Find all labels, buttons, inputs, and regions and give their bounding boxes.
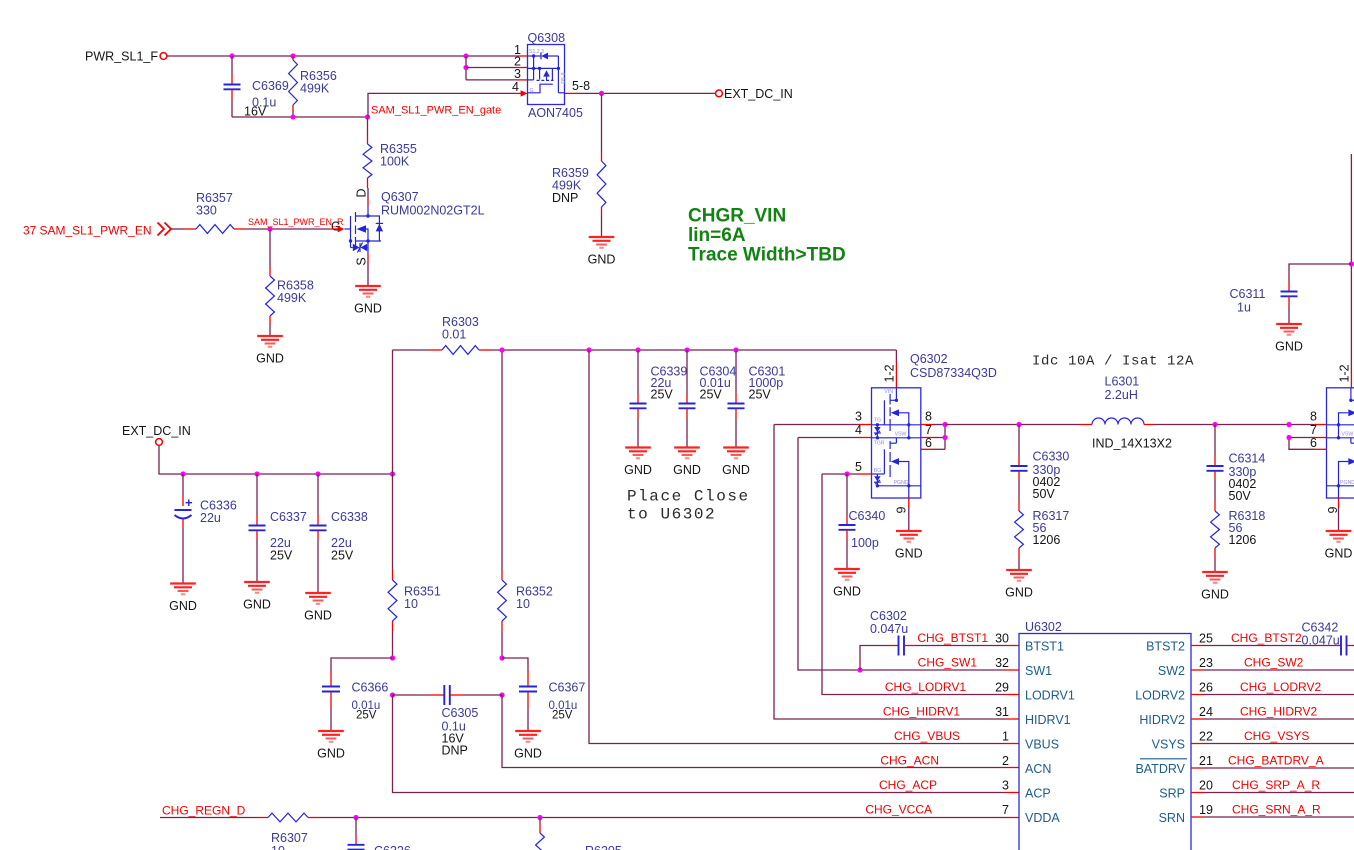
svg-text:HIDRV2: HIDRV2: [1139, 713, 1185, 727]
svg-text:EXT_DC_IN: EXT_DC_IN: [724, 87, 793, 101]
junction: [684, 347, 689, 352]
svg-text:VSW: VSW: [895, 431, 907, 437]
svg-text:499K: 499K: [277, 291, 307, 305]
resistor R6303: [393, 349, 431, 351]
wire HIDRV2: [1191, 718, 1203, 720]
svg-text:TG: TG: [874, 418, 881, 424]
svg-text:100p: 100p: [851, 536, 879, 550]
capacitor C6336: [182, 474, 184, 496]
svg-text:CHG_ACN: CHG_ACN: [880, 754, 939, 768]
svg-text:PGND: PGND: [1340, 480, 1354, 486]
svg-text:31: 31: [995, 705, 1009, 719]
wire pin3: [466, 79, 517, 81]
ground: [895, 531, 923, 561]
svg-text:L6301: L6301: [1105, 375, 1140, 389]
svg-text:0.047u: 0.047u: [1302, 634, 1340, 648]
wire drain: [367, 188, 369, 200]
wire EXT_DC_IN bus: [159, 446, 393, 475]
junction: [599, 91, 604, 96]
svg-text:VSYS: VSYS: [1152, 738, 1185, 752]
capacitor C6338: [317, 474, 319, 515]
svg-text:GND: GND: [722, 463, 750, 477]
junction: [463, 53, 468, 58]
svg-text:VIN: VIN: [884, 389, 893, 395]
svg-text:CHG_BTST1: CHG_BTST1: [917, 631, 988, 645]
svg-text:2.2uH: 2.2uH: [1105, 388, 1138, 402]
wire pin6 link: [1289, 438, 1314, 450]
svg-text:50V: 50V: [1033, 487, 1056, 501]
capacitor C6340: [846, 474, 848, 515]
svg-text:GND: GND: [1325, 547, 1353, 561]
svg-text:5-8: 5-8: [572, 79, 590, 93]
svg-text:VSW: VSW: [1342, 431, 1354, 437]
wire VBUS: [589, 350, 1006, 744]
junction: [315, 471, 320, 476]
junction: [365, 114, 370, 119]
svg-text:SW1: SW1: [1025, 664, 1052, 678]
svg-text:PGND: PGND: [894, 480, 909, 486]
svg-text:7: 7: [1310, 423, 1317, 437]
wire PWR_SL1_F bus: [167, 55, 517, 57]
junction: [180, 471, 185, 476]
svg-text:EXT_DC_IN: EXT_DC_IN: [122, 424, 191, 438]
svg-text:CHG_VBUS: CHG_VBUS: [894, 729, 960, 743]
svg-text:C6305: C6305: [442, 706, 479, 720]
svg-text:GND: GND: [1005, 586, 1033, 600]
svg-text:C6330: C6330: [1033, 450, 1070, 464]
junction: [254, 471, 259, 476]
junction: [499, 655, 504, 660]
resistor R6318: [1214, 501, 1216, 511]
svg-text:R6305: R6305: [585, 844, 622, 850]
svg-text:CHGR_VIN: CHGR_VIN: [688, 206, 786, 227]
svg-text:1206: 1206: [1033, 533, 1061, 547]
resistor R6357: [171, 228, 184, 230]
capacitor C6369: [231, 56, 233, 74]
svg-text:CHG_SW2: CHG_SW2: [1244, 656, 1304, 670]
svg-text:Q6308: Q6308: [528, 31, 566, 45]
svg-text:26: 26: [1199, 681, 1213, 695]
svg-text:25V: 25V: [270, 549, 293, 563]
svg-text:GND: GND: [317, 747, 345, 761]
svg-text:CHG_SW1: CHG_SW1: [918, 656, 978, 670]
wire VSYS: [1191, 743, 1203, 745]
svg-text:SAM_SL1_PWR_EN_R: SAM_SL1_PWR_EN_R: [248, 217, 344, 227]
junction: [390, 692, 395, 697]
wire TG: [774, 424, 858, 426]
svg-text:CHG_HIDRV2: CHG_HIDRV2: [1240, 705, 1317, 719]
wire SRP: [1191, 792, 1203, 794]
wire VIN to Q6302: [895, 350, 897, 362]
svg-text:8: 8: [1310, 410, 1317, 424]
svg-text:10: 10: [404, 597, 418, 611]
transistor Q6307: [344, 228, 350, 230]
resistor R6317: [1018, 501, 1020, 511]
ground: [722, 448, 750, 478]
wire src vertical: [465, 56, 467, 80]
junction: [537, 815, 542, 820]
svg-text:VDDA: VDDA: [1025, 811, 1060, 825]
svg-text:1-2: 1-2: [882, 364, 896, 382]
wire SW2: [1191, 669, 1203, 671]
svg-text:CSD87334Q3D: CSD87334Q3D: [910, 366, 997, 380]
terminal PWR_SL1_F: [160, 53, 167, 60]
junction: [844, 471, 849, 476]
svg-text:30: 30: [995, 632, 1009, 646]
svg-text:20: 20: [1199, 779, 1213, 793]
svg-text:Idc 10A / Isat 12A: Idc 10A / Isat 12A: [1032, 354, 1194, 370]
svg-text:330: 330: [196, 204, 217, 218]
svg-text:PWR_SL1_F: PWR_SL1_F: [85, 50, 158, 64]
svg-text:lin=6A: lin=6A: [688, 225, 746, 246]
svg-text:BG: BG: [874, 468, 882, 474]
svg-text:21: 21: [1199, 754, 1213, 768]
wire HIDRV1 net: [774, 425, 1006, 720]
svg-text:C6302: C6302: [870, 609, 907, 623]
junction: [857, 667, 862, 672]
capacitor C6366: [331, 658, 393, 671]
svg-text:100K: 100K: [380, 155, 410, 169]
svg-text:CHG_ACP: CHG_ACP: [879, 778, 937, 792]
svg-text:ACN: ACN: [1025, 762, 1051, 776]
svg-text:S1,2,3: S1,2,3: [529, 49, 544, 55]
svg-text:C6340: C6340: [849, 509, 886, 523]
svg-text:CHG_LODRV2: CHG_LODRV2: [1240, 680, 1321, 694]
capacitor C6367: [502, 658, 528, 671]
resistor R6359: [601, 93, 603, 152]
svg-text:DNP: DNP: [552, 191, 578, 205]
svg-text:32: 32: [995, 656, 1009, 670]
svg-text:CHG_BATDRV_A: CHG_BATDRV_A: [1228, 754, 1324, 768]
wire VIN right: [1350, 154, 1352, 374]
svg-text:AON7405: AON7405: [528, 106, 583, 120]
svg-text:GND: GND: [169, 599, 197, 613]
capacitor C6326: [355, 818, 357, 836]
svg-text:SRP: SRP: [1159, 787, 1185, 801]
wire pin4 gate: [368, 93, 516, 117]
svg-text:GND: GND: [624, 463, 652, 477]
svg-text:CHG_SRN_A_R: CHG_SRN_A_R: [1232, 803, 1321, 817]
svg-text:GND: GND: [833, 585, 861, 599]
svg-text:BATDRV: BATDRV: [1135, 762, 1185, 776]
svg-text:10: 10: [271, 844, 285, 850]
svg-text:29: 29: [995, 681, 1009, 695]
junction: [463, 65, 468, 70]
svg-text:50V: 50V: [1229, 489, 1252, 503]
svg-text:499K: 499K: [300, 82, 330, 96]
svg-text:Place Close: Place Close: [627, 488, 750, 506]
resistor R6351: [392, 474, 394, 570]
ground: [673, 448, 701, 478]
resistor R6305: [539, 818, 541, 824]
IC U6302: [1019, 634, 1191, 850]
svg-text:S: S: [355, 257, 369, 265]
svg-text:CHG_HIDRV1: CHG_HIDRV1: [883, 705, 960, 719]
svg-text:5: 5: [855, 460, 862, 474]
wire ACN: [502, 695, 1006, 768]
svg-text:GND: GND: [1275, 340, 1303, 354]
svg-text:CHG_REGN_D: CHG_REGN_D: [162, 804, 246, 818]
svg-text:C6367: C6367: [549, 681, 586, 695]
resistor R6356: [292, 56, 294, 60]
wire pin7 right: [921, 437, 933, 439]
capacitor C6301: [735, 350, 737, 394]
svg-text:RUM002N02GT2L: RUM002N02GT2L: [381, 204, 485, 218]
svg-text:2: 2: [1002, 754, 1009, 768]
wire LODRV1 net: [822, 474, 1006, 695]
wire SW1 net: [798, 438, 1006, 671]
svg-text:7: 7: [1002, 803, 1009, 817]
junction: [1349, 261, 1354, 266]
svg-text:SRN: SRN: [1159, 811, 1185, 825]
svg-text:D5-8: D5-8: [561, 72, 567, 83]
junction: [353, 815, 358, 820]
svg-text:C6314: C6314: [1229, 452, 1266, 466]
svg-text:CHG_LODRV1: CHG_LODRV1: [885, 680, 966, 694]
svg-text:1u: 1u: [1237, 301, 1251, 315]
wire BATDRV: [1191, 767, 1203, 769]
svg-text:DNP: DNP: [442, 744, 468, 758]
svg-text:25V: 25V: [651, 388, 674, 402]
transistor Q6303: [1327, 388, 1354, 498]
svg-text:SW2: SW2: [1158, 664, 1185, 678]
terminal EXT_DC_IN: [716, 90, 723, 97]
ground: [304, 593, 332, 623]
svg-text:9: 9: [894, 506, 908, 513]
svg-text:C6369: C6369: [252, 79, 289, 93]
svg-text:1206: 1206: [1229, 533, 1257, 547]
junction: [635, 347, 640, 352]
ground: [317, 731, 345, 761]
wire drain out: [565, 92, 578, 94]
capacitor C6337: [256, 474, 258, 515]
junction: [1286, 435, 1291, 440]
wire TGR: [798, 437, 858, 439]
wire VIN drop: [392, 350, 394, 474]
wire pin1 stub: [517, 55, 528, 57]
svg-text:23: 23: [1199, 656, 1213, 670]
svg-text:Q6302: Q6302: [910, 352, 948, 366]
svg-text:C6337: C6337: [270, 510, 307, 524]
svg-text:SAM_SL1_PWR_EN_gate: SAM_SL1_PWR_EN_gate: [371, 105, 501, 117]
ground: [1275, 324, 1303, 354]
junction: [733, 347, 738, 352]
svg-text:CHG_VSYS: CHG_VSYS: [1244, 729, 1309, 743]
svg-text:Trace Width>TBD: Trace Width>TBD: [688, 245, 846, 266]
svg-text:25V: 25V: [700, 388, 723, 402]
svg-text:0.047u: 0.047u: [870, 622, 908, 636]
svg-text:GND: GND: [304, 609, 332, 623]
svg-text:25V: 25V: [749, 388, 772, 402]
ground: [1325, 531, 1353, 561]
inductor L6301: [1080, 424, 1092, 426]
svg-text:25V: 25V: [356, 710, 377, 722]
wire LODRV2: [1191, 694, 1203, 696]
wire PGND: [908, 498, 910, 508]
svg-text:C6342: C6342: [1302, 621, 1339, 635]
svg-text:19: 19: [1199, 803, 1213, 817]
junction: [1212, 422, 1217, 427]
svg-text:to U6302: to U6302: [627, 506, 716, 524]
wire VIN bus: [491, 349, 896, 351]
transistor Q6302: [872, 388, 921, 498]
resistor R6307: [160, 817, 258, 819]
junction: [499, 692, 504, 697]
svg-text:GND: GND: [895, 547, 923, 561]
junction: [942, 422, 947, 427]
svg-text:10: 10: [516, 597, 530, 611]
junction: [1016, 422, 1021, 427]
svg-text:+: +: [185, 495, 193, 510]
wire ACP: [393, 695, 1007, 793]
svg-text:GND: GND: [514, 747, 542, 761]
svg-text:GND: GND: [673, 463, 701, 477]
svg-text:25V: 25V: [552, 710, 573, 722]
svg-text:BTST1: BTST1: [1025, 640, 1064, 654]
svg-text:3: 3: [855, 410, 862, 424]
svg-text:D: D: [355, 188, 369, 197]
svg-text:ACP: ACP: [1025, 787, 1051, 801]
svg-text:8: 8: [925, 410, 932, 424]
wire gate bus: [232, 116, 368, 118]
junction: [942, 435, 947, 440]
ground: [624, 448, 652, 478]
wire SW2 node: [1154, 424, 1314, 426]
svg-text:24: 24: [1199, 705, 1213, 719]
junction: [390, 655, 395, 660]
ground: [1005, 570, 1033, 600]
wire SW tie: [944, 425, 946, 450]
svg-text:U6302: U6302: [1025, 620, 1062, 634]
capacitor C6305: [393, 694, 431, 696]
svg-text:1-2: 1-2: [1337, 364, 1351, 382]
ground: [243, 582, 271, 612]
svg-text:TGR: TGR: [874, 441, 885, 447]
capacitor C6330: [1018, 425, 1020, 457]
svg-text:37: 37: [23, 224, 37, 238]
wire VDDA net: [318, 817, 1006, 819]
ground: [256, 336, 284, 366]
svg-text:0.01: 0.01: [442, 328, 466, 342]
svg-text:C6338: C6338: [331, 510, 368, 524]
svg-text:GND: GND: [256, 352, 284, 366]
wire PGND2: [1338, 498, 1340, 508]
wire pin7 link: [1289, 437, 1314, 439]
resistor R6352: [501, 350, 503, 570]
wire pin2: [466, 67, 517, 69]
capacitor C6311: [1289, 264, 1351, 282]
svg-text:3: 3: [1002, 779, 1009, 793]
ground: [833, 569, 861, 599]
svg-text:GND: GND: [588, 253, 616, 267]
ground: [354, 286, 382, 316]
junction: [267, 226, 272, 231]
svg-text:CHG_SRP_A_R: CHG_SRP_A_R: [1232, 778, 1320, 792]
wire SW right: [921, 424, 933, 426]
wire source: [367, 254, 369, 264]
svg-text:CHG_VCCA: CHG_VCCA: [865, 803, 932, 817]
wire BTST2: [1191, 645, 1203, 647]
capacitor C6314: [1214, 425, 1216, 457]
svg-text:C6366: C6366: [352, 681, 389, 695]
ground: [169, 584, 197, 614]
svg-text:R6307: R6307: [271, 831, 308, 845]
svg-text:4: 4: [512, 80, 519, 94]
svg-text:GND: GND: [1201, 588, 1229, 602]
svg-text:IND_14X13X2: IND_14X13X2: [1092, 437, 1172, 451]
junction: [1286, 422, 1291, 427]
capacitor C6342: [1340, 636, 1342, 656]
svg-text:C6326: C6326: [374, 844, 411, 850]
svg-text:22u: 22u: [200, 511, 221, 525]
svg-text:1: 1: [1002, 730, 1009, 744]
svg-text:3: 3: [514, 67, 521, 81]
resistor R6355: [367, 117, 369, 135]
svg-text:HIDRV1: HIDRV1: [1025, 713, 1071, 727]
junction: [290, 114, 295, 119]
svg-text:25V: 25V: [331, 549, 354, 563]
svg-text:VBUS: VBUS: [1025, 738, 1059, 752]
junction: [290, 53, 295, 58]
ground: [588, 237, 616, 267]
wire gate stub: [330, 228, 338, 230]
ground: [1201, 572, 1229, 602]
ground: [514, 731, 542, 761]
svg-text:GND: GND: [243, 598, 271, 612]
svg-text:C6311: C6311: [1230, 287, 1266, 301]
capacitor C6302: [860, 646, 888, 671]
svg-text:25: 25: [1199, 632, 1213, 646]
svg-text:LODRV2: LODRV2: [1135, 689, 1185, 703]
svg-text:22: 22: [1199, 730, 1213, 744]
junction: [229, 53, 234, 58]
transistor Q6308: [528, 45, 565, 105]
terminal EXT_DC_IN: [156, 439, 163, 446]
svg-text:BTST2: BTST2: [1146, 640, 1185, 654]
wire BG: [822, 473, 858, 475]
resistor R6358: [269, 229, 271, 267]
svg-text:LODRV1: LODRV1: [1025, 689, 1075, 703]
capacitor C6304: [686, 350, 688, 394]
junction: [586, 347, 591, 352]
pin BATDRV: [1140, 758, 1187, 760]
junction: [390, 471, 395, 476]
wire SRN: [1191, 816, 1203, 818]
svg-text:Q6307: Q6307: [381, 190, 419, 204]
wire SW node: [945, 424, 1080, 426]
capacitor C6339: [637, 350, 639, 394]
svg-text:GND: GND: [354, 302, 382, 316]
svg-text:SAM_SL1_PWR_EN: SAM_SL1_PWR_EN: [39, 224, 151, 238]
wire pin6 right: [921, 448, 933, 450]
svg-text:CHG_BTST2: CHG_BTST2: [1231, 631, 1302, 645]
junction: [499, 347, 504, 352]
